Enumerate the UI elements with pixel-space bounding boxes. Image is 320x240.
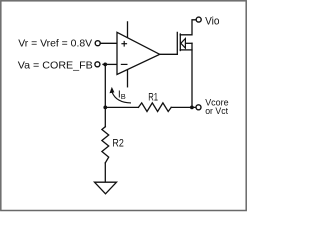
svg-text:B: B: [121, 92, 126, 101]
svg-text:Vr = Vref = 0.8V: Vr = Vref = 0.8V: [18, 38, 92, 50]
svg-text:Vio: Vio: [205, 15, 219, 27]
svg-text:R2: R2: [112, 137, 123, 149]
svg-text:R1: R1: [148, 91, 158, 103]
svg-text:or Vct: or Vct: [205, 106, 228, 117]
svg-text:Va = CORE_FB: Va = CORE_FB: [18, 60, 93, 72]
